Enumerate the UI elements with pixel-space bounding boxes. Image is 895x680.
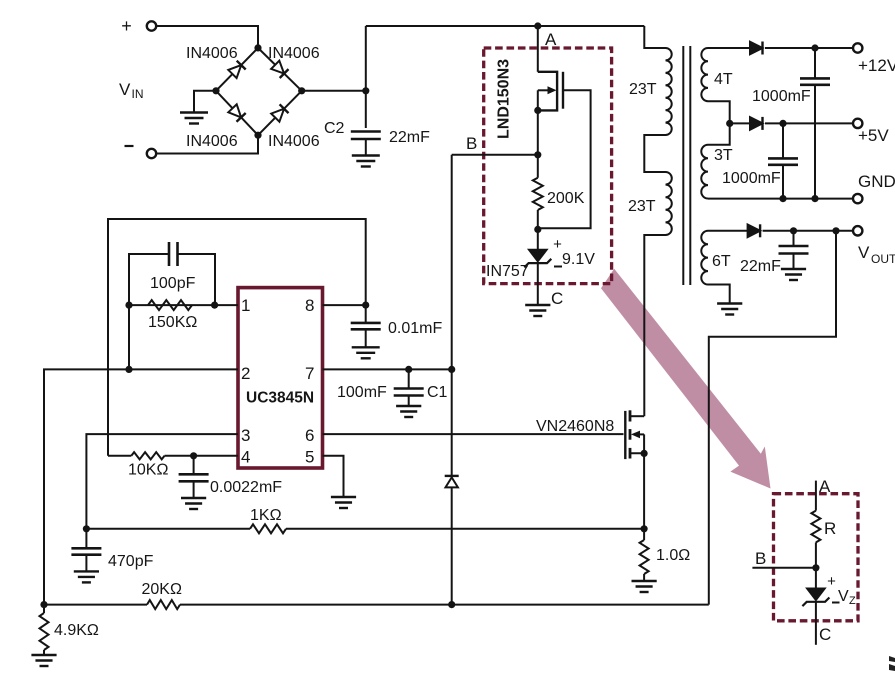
svg-text:2: 2 (241, 364, 250, 383)
svg-text:+12V: +12V (858, 56, 895, 75)
node C2 junction (362, 87, 369, 94)
wire B lead equivalent (752, 567, 816, 569)
node 1ohm junction (641, 525, 648, 532)
diode +12V rectifier (750, 42, 763, 55)
svg-text:+: + (121, 16, 132, 36)
wire pin4 row (108, 455, 131, 457)
wire pin1 row (129, 304, 238, 306)
svg-text:6: 6 (305, 426, 314, 445)
svg-text:10KΩ: 10KΩ (128, 462, 168, 479)
svg-text:470pF: 470pF (108, 553, 154, 570)
svg-text:GND: GND (858, 172, 895, 191)
resistor 20K (147, 600, 180, 609)
svg-text:9.1V: 9.1V (562, 251, 595, 268)
svg-text:22mF: 22mF (740, 258, 781, 275)
diode D1 IN4006 top-left (228, 65, 241, 78)
wire HV rail vertical at C2 (365, 26, 367, 128)
node VOUT cap junction (790, 227, 797, 234)
capacitor 100pF (168, 242, 171, 266)
transformer secondary winding 4T (708, 47, 750, 49)
terminal +5V (853, 119, 862, 128)
ground 1.0ohm (632, 580, 657, 582)
svg-text:200K: 200K (547, 190, 585, 207)
wire zener to ground C (537, 263, 539, 305)
terminal - input (125, 145, 134, 147)
node 470pF junction (83, 525, 90, 532)
wire HV top rail (366, 25, 645, 27)
svg-text:7: 7 (305, 364, 314, 383)
node LND source junction (534, 107, 541, 114)
capacitor C2 22mF (351, 130, 381, 133)
svg-text:4: 4 (241, 448, 250, 467)
ground pin5 (331, 496, 356, 498)
wire - input to bridge bottom (156, 135, 258, 153)
capacitor 1000mF +5V (782, 123, 784, 158)
svg-text:23T: 23T (629, 81, 657, 98)
terminal GND (853, 194, 862, 203)
wire source to 1K row (643, 453, 645, 528)
diode D3 IN4006 bottom-left (228, 104, 241, 117)
node B junction equivalent (812, 564, 819, 571)
node bridge junction dots (254, 44, 261, 51)
node 4T/3T junction (726, 120, 733, 127)
svg-text:1.0Ω: 1.0Ω (656, 547, 690, 564)
wire 6T bottom to ground (708, 285, 730, 304)
wire pin2 row to left rail (44, 369, 238, 604)
diode D4 IN4006 bottom-right (271, 109, 284, 122)
node VOUT feedback junction (832, 227, 839, 234)
ground 4.9K (31, 654, 56, 656)
resistor 200K (533, 178, 543, 210)
wire A lead (815, 481, 817, 511)
svg-text:3: 3 (241, 426, 250, 445)
svg-text:8: 8 (305, 296, 314, 315)
ground 22mF output (781, 268, 806, 270)
capacitor 22mF output (793, 231, 795, 246)
svg-text:20KΩ: 20KΩ (142, 581, 182, 598)
diode VOUT rectifier (748, 225, 761, 238)
svg-text:3T: 3T (714, 147, 733, 164)
corner watermark fragment (889, 656, 895, 671)
capacitor 0.01mF (365, 305, 367, 323)
node +5V cap junction (779, 120, 786, 127)
wire bridge diamond edges (216, 48, 258, 91)
node A junction on HV rail (534, 22, 541, 29)
resistor 10K (131, 452, 164, 459)
svg-text:C1: C1 (427, 384, 448, 401)
node bootstrap junction (448, 601, 455, 608)
ground LND block (525, 304, 550, 306)
box dashed equivalent circuit (774, 494, 859, 621)
svg-text:V: V (858, 243, 870, 262)
wire VOUT feedback to divider (709, 231, 836, 605)
box dashed LND150N3 (484, 48, 612, 284)
svg-text:IN4006: IN4006 (186, 45, 238, 62)
transformer primary winding 23T lower (666, 172, 672, 235)
resistor R equivalent (811, 511, 820, 543)
svg-text:V: V (119, 80, 131, 99)
node 20K left junction (40, 601, 47, 608)
wire pin3 row (86, 434, 238, 529)
resistor 1.0ohm (640, 540, 649, 574)
svg-text:150KΩ: 150KΩ (148, 314, 197, 331)
label - equivalent (832, 602, 840, 604)
node pin8 junction (362, 302, 369, 309)
svg-text:UC3845N: UC3845N (246, 390, 314, 407)
svg-text:0.01mF: 0.01mF (388, 320, 442, 337)
svg-text:OUT: OUT (871, 252, 895, 266)
wire 200K to zener node (537, 210, 539, 250)
wire Vcc vertical B to 20K row (451, 155, 453, 370)
transformer secondary winding 3T (708, 123, 730, 144)
svg-text:5: 5 (305, 448, 314, 467)
wire HV rail to primary top (644, 26, 665, 48)
wire RC node down (128, 305, 130, 369)
svg-text:+: + (553, 236, 562, 253)
wire pin7 row (323, 368, 452, 370)
wire pin6 gate drive row (323, 433, 624, 435)
svg-text:IN757: IN757 (486, 263, 529, 280)
svg-text:4T: 4T (714, 71, 733, 88)
svg-text:1000mF: 1000mF (752, 88, 811, 105)
svg-text:A: A (819, 477, 831, 496)
svg-text:C: C (819, 625, 831, 644)
svg-text:+: + (827, 573, 836, 590)
svg-text:0.0022mF: 0.0022mF (210, 479, 282, 496)
capacitor C1 100mF (408, 369, 410, 388)
svg-text:V: V (838, 588, 849, 605)
svg-text:23T: 23T (628, 198, 656, 215)
node pin1 junctions (125, 302, 132, 309)
terminal VOUT (853, 226, 862, 235)
svg-text:Z: Z (849, 595, 856, 607)
svg-text:6T: 6T (712, 253, 731, 270)
node Vcc junction (448, 366, 455, 373)
svg-text:C2: C2 (324, 120, 345, 137)
node B junction and wire (452, 154, 538, 156)
svg-text:IN4006: IN4006 (186, 133, 238, 150)
wire GND row (708, 198, 853, 200)
wire 4T bottom to +5V node (708, 101, 730, 123)
wire primary bottom to VN2460N8 drain (644, 235, 665, 416)
svg-text:R: R (824, 519, 836, 538)
transformer secondary winding 6T (708, 230, 748, 232)
node +12V cap junction (811, 44, 818, 51)
svg-text:IN4006: IN4006 (268, 45, 320, 62)
zener IN757 9.1V (529, 250, 547, 262)
capacitor 0.0022mF (193, 456, 195, 475)
svg-text:1: 1 (241, 296, 250, 315)
node GND dots (779, 195, 786, 202)
resistor 1K (250, 524, 286, 533)
svg-text:C: C (551, 289, 563, 308)
wire C lead equivalent (815, 602, 817, 645)
svg-text:+5V: +5V (858, 126, 889, 145)
svg-text:IN: IN (132, 87, 144, 101)
wire bridge right node to C2 node (302, 90, 366, 92)
wire + input to bridge top (156, 26, 258, 48)
svg-text:100pF: 100pF (150, 275, 196, 292)
label - polarity (554, 266, 562, 268)
svg-text:1KΩ: 1KΩ (250, 507, 282, 524)
svg-text:1000mF: 1000mF (722, 170, 781, 187)
ground C1 (396, 405, 421, 407)
svg-text:4.9KΩ: 4.9KΩ (54, 622, 99, 639)
wire 1K row (86, 528, 250, 530)
svg-text:22mF: 22mF (389, 129, 430, 146)
ground C2 (352, 154, 380, 156)
resistor 4.9K (43, 605, 45, 613)
node source junction (641, 450, 648, 457)
op-amp U1 UC3845N PWM controller box (238, 288, 323, 468)
svg-text:B: B (755, 549, 766, 568)
wire primary mid step (644, 135, 665, 172)
zener Vz equivalent (807, 588, 825, 600)
node zener junction (534, 226, 541, 233)
capacitor 470pF (85, 529, 87, 549)
transformer core (682, 46, 684, 285)
ground bridge (180, 111, 208, 113)
wire bridge left node to ground (194, 91, 216, 113)
wire 100pF branch (129, 254, 169, 305)
transformer primary winding 23T upper (666, 48, 672, 135)
ground 0.0022mF (181, 497, 206, 499)
wire Vref rail pin8 (323, 304, 366, 306)
transistor Q1 LND150N3 depletion MOSFET (538, 72, 557, 111)
ground 0.01mF (352, 346, 380, 348)
wire LND source down to 200K (537, 110, 539, 177)
wire R to node (815, 542, 817, 588)
svg-text:VN2460N8: VN2460N8 (536, 418, 614, 435)
diode bootstrap (445, 475, 459, 477)
ground 470pF (74, 570, 99, 572)
svg-text:B: B (466, 134, 477, 153)
diode +5V rectifier (730, 122, 750, 124)
svg-text:A: A (545, 30, 557, 49)
resistor 150K (148, 300, 192, 310)
diode D2 IN4006 top-right (271, 61, 284, 74)
wire node A down to LND150N3 drain (537, 26, 539, 72)
capacitor 1000mF +12V (814, 48, 816, 78)
wire 20K row (44, 604, 147, 606)
node C1 junction (405, 366, 412, 373)
transistor Q2 VN2460N8 (624, 411, 626, 459)
terminal +12V (853, 43, 862, 52)
svg-text:IN4006: IN4006 (268, 133, 320, 150)
svg-text:100mF: 100mF (337, 384, 387, 401)
ground 6T (717, 302, 742, 304)
svg-text:LND150N3: LND150N3 (496, 59, 513, 139)
wire pin5 to ground (323, 456, 344, 497)
node pin4 junction (190, 452, 197, 459)
annotation arrow from LND150N3 box to equivalent circuit box (601, 269, 771, 489)
node pin2/RC junction (125, 366, 132, 373)
